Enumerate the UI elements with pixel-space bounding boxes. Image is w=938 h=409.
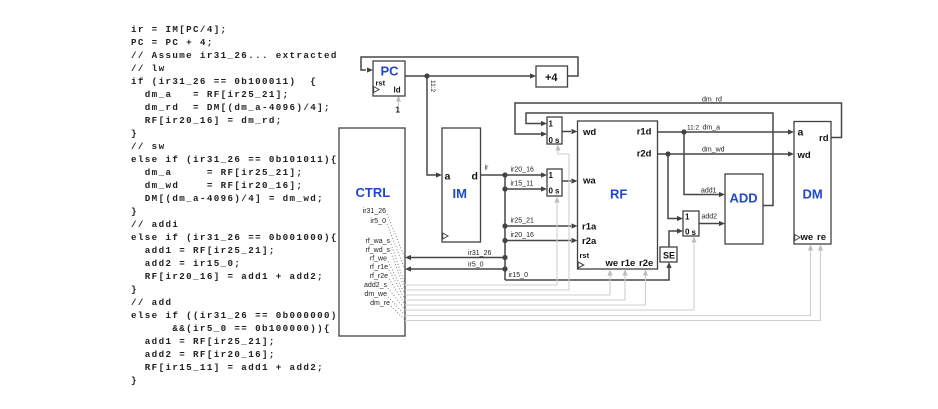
svg-text:a: a (798, 127, 804, 139)
svg-text:11:2: 11:2 (429, 80, 436, 93)
junction r2d node (665, 151, 670, 156)
svg-text:ir15_11: ir15_11 (511, 181, 534, 188)
wire RF r1d to DM a (658, 129, 795, 134)
svg-text:1: 1 (549, 120, 554, 129)
wire wd-mux out to RF wd (562, 129, 578, 134)
svg-text:rst: rst (376, 79, 386, 88)
wire ir15_0 to SE (505, 262, 672, 280)
svg-text:0: 0 (549, 136, 554, 145)
svg-text:rf_wd_s: rf_wd_s (365, 247, 390, 254)
junction ir31_26 (502, 255, 507, 260)
svg-text:s: s (555, 187, 560, 196)
block RF (578, 121, 658, 269)
clock input RF (578, 262, 584, 268)
svg-text:we: we (605, 258, 619, 269)
wire wa-mux out to RF wa (562, 178, 578, 183)
wire ir20_16 to RF r2a (505, 238, 578, 243)
junction ir15_11 (502, 186, 507, 191)
block IM (442, 128, 481, 242)
svg-text:ir20_16: ir20_16 (511, 167, 534, 174)
wire ir31_26 to CTRL (405, 255, 505, 260)
svg-text:d: d (472, 171, 478, 183)
dotted link ir5_0 label (387, 224, 405, 269)
label ir5_0 wire (468, 262, 484, 269)
wire ir5_0 to CTRL (405, 266, 505, 271)
svg-text:rf_r1e: rf_r1e (370, 264, 388, 271)
block ADD (725, 174, 763, 244)
wire ADD output to wd-mux 1 (526, 113, 773, 206)
wire ir bus vertical (504, 175, 506, 280)
svg-text:ir31_26: ir31_26 (363, 208, 386, 215)
svg-text:CTRL: CTRL (356, 185, 391, 200)
svg-text:ir20_16: ir20_16 (511, 232, 534, 239)
mux wd-mux M1 (547, 117, 562, 145)
label dm_rd (702, 97, 722, 104)
svg-text:ir25_21: ir25_21 (511, 218, 534, 225)
label constant 1 to PC ld (396, 106, 401, 115)
wire ir15_11 to wa-mux 0 (505, 186, 547, 191)
junction ir25_21 (502, 223, 507, 228)
wire +4 feedback to PC (361, 57, 578, 76)
control rf_we (gray) (405, 270, 613, 296)
label ir (485, 165, 490, 172)
svg-text:ir: ir (485, 165, 490, 172)
label ir25_21 (511, 218, 534, 225)
clock input IM (443, 233, 448, 239)
svg-text:PC: PC (381, 64, 400, 79)
svg-text:ld: ld (394, 86, 401, 95)
dotted link ir31_26 label (387, 214, 405, 257)
label ir15_11 (511, 181, 534, 188)
wire RF r2d to DM wd (658, 151, 795, 156)
junction PC output node (424, 73, 429, 78)
control rf_wa_s (gray) (405, 197, 560, 286)
svg-text:dm_wd: dm_wd (702, 147, 725, 154)
svg-text:SE: SE (663, 251, 675, 261)
svg-text:+4: +4 (545, 72, 558, 84)
wire IM d output (ir) (481, 174, 506, 176)
wire PC output to +4 (405, 73, 536, 78)
junction ir20_16 lower (502, 238, 507, 243)
block CTRL (339, 128, 405, 336)
svg-text:add2: add2 (702, 214, 718, 221)
svg-text:wd: wd (797, 150, 811, 161)
wire add2-mux out to ADD (699, 221, 725, 226)
control rf_wd_s (gray) (405, 145, 569, 291)
mux wa-mux M2 (547, 169, 562, 196)
svg-text:rf_wa_s: rf_wa_s (365, 238, 390, 245)
dotted link rf_we (388, 262, 405, 295)
control dm_re (gray) (405, 245, 823, 321)
label ir15_0 (509, 272, 529, 279)
control rf_r2e (gray) (405, 270, 648, 306)
control dm_we (gray) (405, 245, 813, 316)
control add2_s (gray) (405, 237, 697, 311)
wire ir20_16 to wa-mux 1 (505, 172, 547, 177)
control rf_r1e (gray) (405, 270, 628, 301)
svg-text:rst: rst (580, 251, 590, 260)
svg-text:ADD: ADD (730, 191, 758, 206)
svg-text:dm_a: dm_a (703, 125, 721, 132)
wire PC[11:2] down to IM a (427, 76, 442, 178)
dotted link dm_we (388, 297, 405, 315)
svg-text:1: 1 (549, 171, 554, 180)
svg-text:add1: add1 (701, 188, 717, 195)
block SE (660, 247, 677, 262)
svg-text:r2e: r2e (639, 258, 653, 269)
wire r2d to add2-mux 1 (668, 154, 683, 221)
svg-text:1: 1 (685, 213, 690, 222)
svg-text:r1e: r1e (621, 258, 635, 269)
svg-text:rf_r2e: rf_r2e (370, 273, 388, 280)
dotted link rf_r1e (389, 270, 405, 300)
label 11:2 (rotated) on PC address wire (429, 80, 436, 93)
svg-text:add2_s: add2_s (364, 282, 387, 289)
label dm_wd (702, 147, 725, 154)
label 11:2 dm_a (687, 125, 720, 132)
svg-text:r1d: r1d (637, 127, 652, 138)
svg-text:ir31_26: ir31_26 (468, 250, 491, 257)
block +4 U-plus4 (536, 66, 568, 87)
svg-text:r1a: r1a (582, 222, 597, 233)
svg-text:ir5_0: ir5_0 (468, 262, 484, 269)
wire ir25_21 to RF r1a (505, 223, 578, 228)
dotted link add2_s (388, 288, 405, 310)
label ir20_16 lower (511, 232, 534, 239)
block DM (794, 122, 831, 245)
svg-text:ir5_0: ir5_0 (370, 218, 386, 225)
svg-text:RF: RF (610, 187, 627, 202)
dotted link rf_r2e (389, 279, 405, 305)
svg-text:wa: wa (582, 176, 596, 187)
label add2 (702, 214, 718, 221)
svg-text:dm_re: dm_re (370, 300, 390, 307)
svg-text:re: re (817, 232, 826, 243)
clock input PC (374, 87, 379, 93)
wire SE out to add2-mux 0 (669, 228, 683, 247)
svg-text:dm_rd: dm_rd (702, 97, 722, 104)
wire add1 from r1d to ADD (684, 132, 725, 197)
svg-text:we: we (800, 232, 814, 243)
dotted link rf_wa_s (391, 244, 405, 285)
svg-text:IM: IM (453, 186, 467, 201)
junction ir5_0 (502, 266, 507, 271)
junction ir node (502, 172, 507, 177)
dotted link dm_re (391, 306, 405, 320)
svg-text:dm_we: dm_we (364, 291, 387, 298)
clock input DM (795, 235, 800, 241)
svg-text:0: 0 (685, 228, 690, 237)
wire constant 1 into PC ld (gray) (396, 96, 401, 108)
svg-text:s: s (692, 228, 697, 237)
dotted link rf_wd_s (391, 253, 405, 290)
svg-text:rf_we: rf_we (370, 256, 387, 263)
junction r1d node (681, 129, 686, 134)
svg-text:rd: rd (819, 133, 829, 144)
wire dm_rd feedback to wd-mux 0 (515, 103, 842, 138)
svg-text:r2d: r2d (637, 149, 652, 160)
label ir31_26 wire (468, 250, 491, 257)
svg-text:s: s (555, 136, 560, 145)
svg-text:0: 0 (549, 187, 554, 196)
svg-text:a: a (445, 171, 451, 183)
label ir20_16 (511, 167, 534, 174)
mux add2-mux M3 (683, 211, 699, 237)
svg-text:r2a: r2a (582, 236, 597, 247)
svg-text:ir15_0: ir15_0 (509, 272, 529, 279)
svg-text:11:2: 11:2 (687, 125, 700, 132)
svg-text:DM: DM (803, 187, 823, 202)
block PC (373, 61, 405, 96)
svg-text:wd: wd (582, 127, 596, 138)
label add1 (701, 188, 717, 195)
